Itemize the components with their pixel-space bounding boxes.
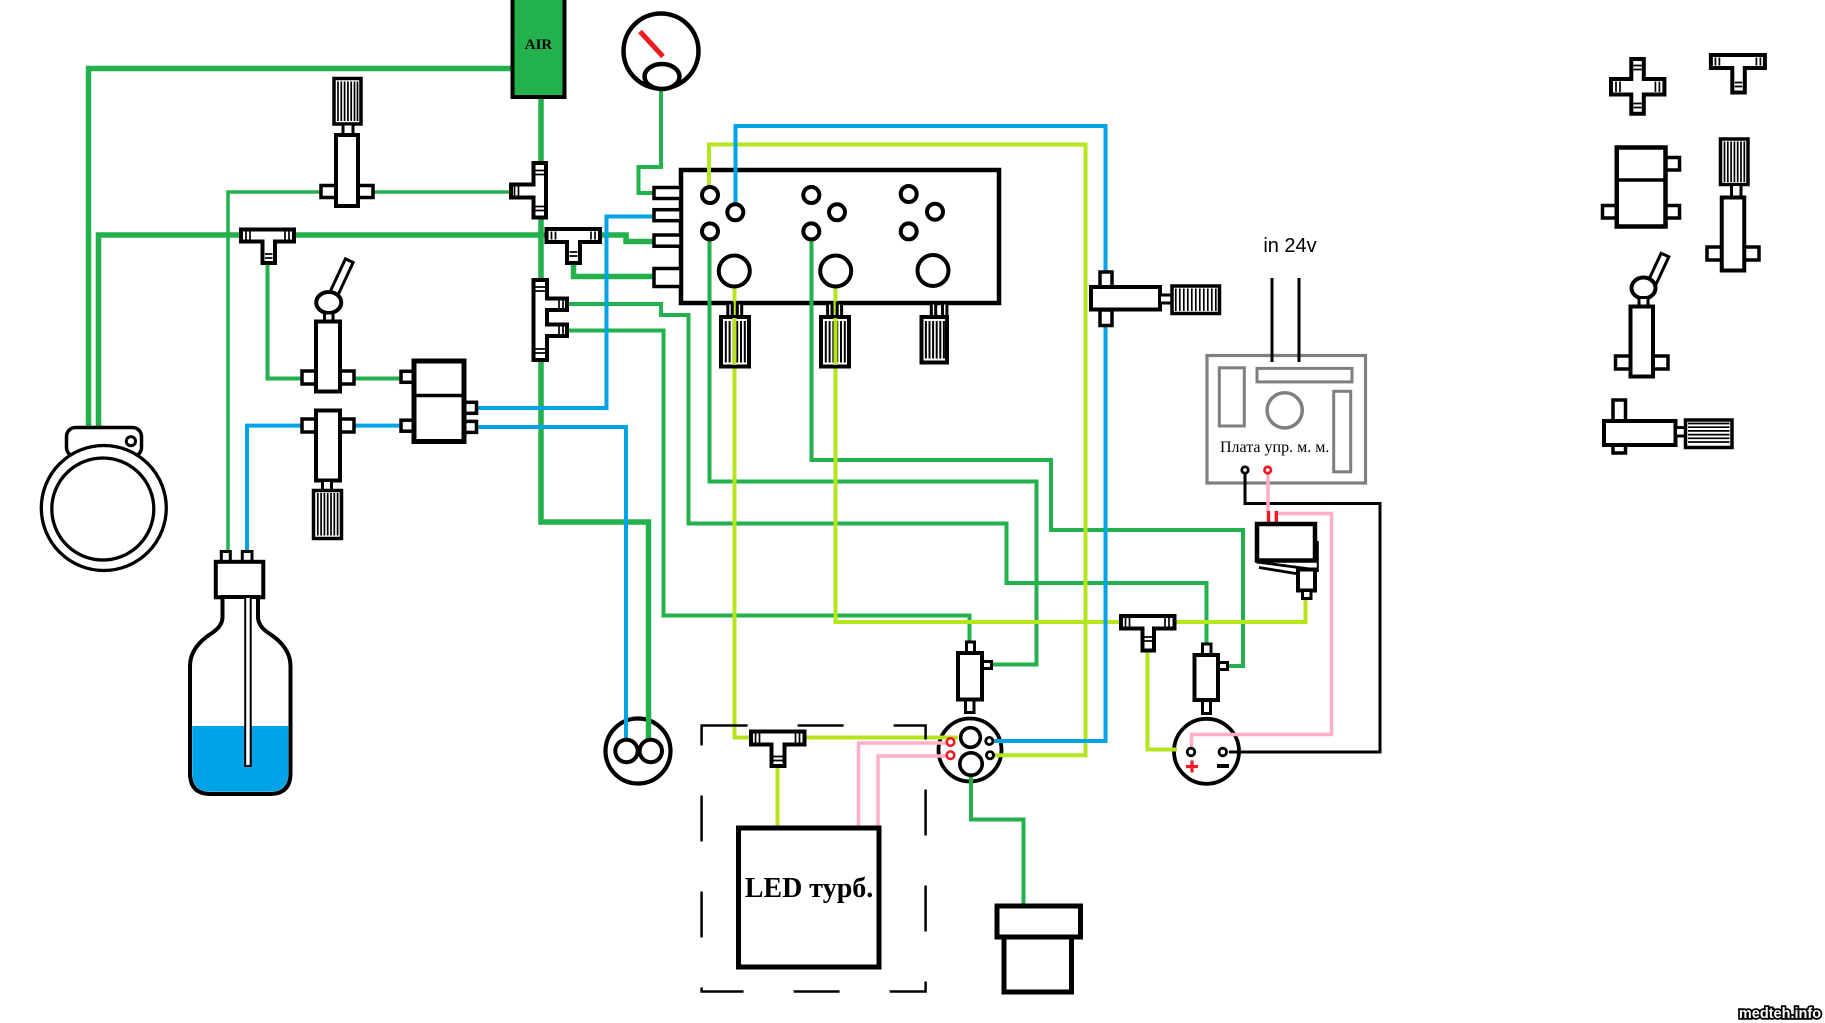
svg-text:medteh.info: medteh.info	[1739, 1006, 1821, 1022]
svg-text:LED турб.: LED турб.	[745, 873, 874, 904]
svg-text:Плата упр. м. м.: Плата упр. м. м.	[1220, 439, 1329, 456]
svg-text:in 24v: in 24v	[1263, 235, 1316, 257]
svg-text:AIR: AIR	[525, 37, 553, 53]
